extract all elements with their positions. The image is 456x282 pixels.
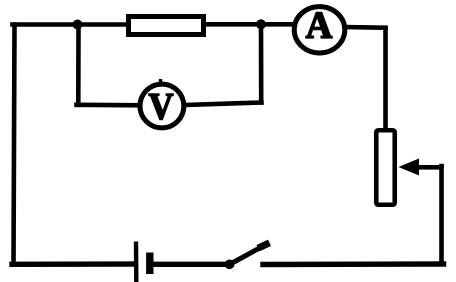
switch blade (open) (229, 245, 267, 266)
wire right lower vertical (439, 166, 444, 264)
wire rheostat wiper shaft (413, 165, 442, 170)
wire resistor to ammeter (203, 22, 294, 27)
wire bottom middle horizontal (152, 262, 232, 267)
wire top left horizontal (13, 22, 129, 27)
wire bottom right horizontal (263, 261, 444, 267)
wire bottom left horizontal (12, 261, 134, 267)
switch blade tip (258, 243, 270, 248)
wire left vertical side (14, 25, 15, 265)
battery cell positive plate (long) (134, 242, 139, 282)
rheostat wiper arrow head (399, 159, 420, 176)
node junction dot left (voltmeter tap) (73, 20, 83, 30)
wire ammeter to top-right corner (345, 25, 386, 30)
voltmeter top terminal tick (159, 79, 162, 83)
wire voltmeter branch right horizontal (184, 103, 262, 106)
wire voltmeter branch left vertical (76, 25, 81, 105)
voltmeter V (140, 84, 184, 128)
battery cell negative plate (short thick) (146, 253, 153, 275)
ammeter A (294, 7, 345, 53)
wire voltmeter branch right vertical (259, 25, 264, 103)
node junction dot right (voltmeter tap) (256, 19, 266, 29)
rheostat (variable resistor) body (376, 130, 395, 205)
wire right upper vertical to rheostat (383, 28, 388, 130)
wire voltmeter branch left horizontal (77, 103, 141, 108)
switch pivot contact (225, 260, 235, 270)
resistor R (fixed resistor under test) (129, 17, 204, 35)
